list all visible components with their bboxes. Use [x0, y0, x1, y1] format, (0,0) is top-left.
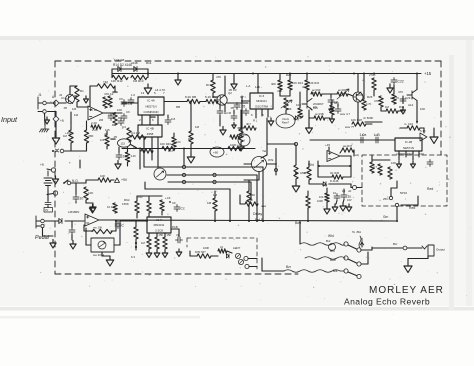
wire lamp b [249, 266, 257, 268]
svg-text:C8: C8 [334, 100, 338, 104]
wire ic5 left vert [241, 96, 243, 134]
wire c20 link [171, 228, 179, 230]
resistor R38 [162, 146, 175, 150]
svg-text:R L: R L [253, 119, 258, 123]
footswitch contact 1b [357, 248, 361, 252]
wire input sleeve drop [44, 113, 47, 125]
svg-text:Analog Echo Reverb: Analog Echo Reverb [344, 297, 430, 307]
wire IC4B pin drop 3 [157, 137, 159, 168]
ground pedal [50, 240, 56, 249]
connector mid out [353, 186, 357, 190]
ground ic7 b [154, 250, 160, 258]
wire r51 bot [148, 213, 150, 217]
svg-text:48: 48 [104, 132, 108, 136]
wire jk bus2 [398, 110, 403, 112]
svg-text:Yel: Yel [262, 149, 266, 153]
wire Q2 collector up [224, 88, 226, 96]
svg-text:1M: 1M [213, 193, 218, 197]
resistor R56 [113, 203, 117, 213]
svg-text:OSC/TRM: OSC/TRM [255, 104, 269, 108]
resistor R2 [75, 86, 79, 102]
svg-text:10b: 10b [319, 195, 324, 199]
wire r18b left [309, 117, 314, 119]
svg-text:L.B: L.B [362, 133, 366, 137]
resistor R8 2.2K [91, 125, 101, 129]
svg-text:PinB: PinB [172, 225, 178, 229]
resistor R17b RM44 [141, 149, 153, 153]
resistor R48 105 [125, 152, 129, 162]
wire R29 drop [373, 90, 375, 96]
dashed enclosure border top [55, 60, 441, 62]
capacitor C6d [231, 114, 237, 121]
wire Q2 base link [213, 96, 217, 98]
svg-text:MN3101: MN3101 [256, 99, 267, 103]
wire 434 stem [433, 128, 435, 133]
wire IC5 pin3 [267, 109, 269, 117]
wire s1 out [71, 182, 86, 184]
resistor R33 [370, 162, 374, 173]
footswitch contact 3b [357, 274, 361, 278]
wire diode feed [112, 68, 148, 70]
svg-text:115: 115 [105, 128, 110, 132]
scan artifact streak bottom [0, 307, 474, 311]
wire bias bus [64, 150, 87, 152]
wire out gnd run [408, 258, 428, 260]
wire r46 gnd [86, 202, 93, 204]
wire p1 lead [47, 169, 51, 170]
svg-text:47K: 47K [374, 99, 379, 103]
junction dot 7 [307, 220, 309, 222]
capacitor C6 [121, 114, 127, 121]
wire IC1B pin c [412, 151, 414, 160]
dashed enclosure border bottom [55, 273, 298, 275]
wire to J5A stem [361, 242, 363, 247]
wire Q5 emitter [310, 108, 312, 110]
svg-text:10: 10 [80, 197, 84, 201]
svg-text:2.2K: 2.2K [91, 121, 97, 125]
capacitor C14b [334, 194, 340, 201]
wire cap22 drop [393, 85, 395, 88]
junction dot 8 [396, 220, 398, 222]
wire wht link [267, 143, 296, 145]
wire Q2 collector to rail [224, 76, 226, 88]
capacitor C13 [427, 160, 433, 167]
footswitch contact 1a [344, 242, 348, 246]
svg-text:NE571N: NE571N [403, 146, 414, 150]
resistor R delay wiper [245, 202, 258, 206]
connector pin d [275, 169, 278, 172]
junction dot 11 [147, 73, 149, 75]
wire Q4 emitter [416, 101, 418, 124]
svg-text:R14: R14 [146, 61, 152, 65]
wire ring to diamond [55, 112, 57, 117]
wire input tip [59, 102, 66, 104]
wire R25 mid [322, 93, 337, 95]
wire IC4A out [164, 101, 187, 103]
svg-text:IC 4B: IC 4B [146, 127, 154, 131]
wire r43 top [214, 191, 216, 198]
wire batt bot [47, 190, 49, 201]
svg-text:68K: 68K [89, 134, 94, 138]
diode D1 1N4148 [118, 66, 121, 71]
connector out a [403, 246, 407, 250]
capacitor C24 10u [116, 153, 122, 160]
wire R15-R16 [200, 101, 206, 103]
resistor R29 270K [372, 78, 376, 90]
wire delay h [244, 179, 259, 181]
wire fb3 drop2 [115, 221, 117, 231]
wire ic7 pin2 [156, 233, 158, 237]
junction ic5 v [241, 100, 243, 102]
wire s1 arm [64, 180, 68, 183]
svg-text:4K7: 4K7 [302, 85, 308, 89]
wire R27 right [366, 123, 372, 125]
svg-text:16.1: 16.1 [107, 205, 113, 209]
capacitor C8b [335, 107, 341, 114]
wire IC4B pin drop 1 [143, 137, 145, 167]
svg-text:Q2: Q2 [228, 91, 232, 95]
wire r64 bot [135, 239, 137, 250]
panel contact P1 [51, 168, 55, 172]
junction rail tap B [252, 73, 254, 75]
resistor R31 500K [386, 109, 398, 113]
IC U4A compander [138, 97, 164, 115]
svg-text:MORLEY AER: MORLEY AER [369, 285, 444, 296]
node diamond lower [53, 116, 59, 122]
svg-text:Bul: Bul [326, 239, 331, 243]
wire r65 top [326, 188, 328, 193]
resistor R43 1M [213, 198, 217, 211]
svg-text:1M: 1M [74, 113, 79, 117]
junction r64 b [135, 246, 137, 248]
svg-text:uF: uF [348, 189, 352, 193]
junction dot 16 [373, 73, 375, 75]
wire R25b to Q3 [348, 94, 353, 96]
wire c31 top [343, 189, 345, 193]
resistor extra RC [244, 126, 256, 130]
svg-text:10: 10 [333, 191, 337, 195]
resistor R35 [388, 167, 392, 179]
wire rail drop 178 [177, 74, 179, 77]
lamp contact b [245, 264, 249, 268]
wire r52 bot [161, 211, 163, 215]
dashed enclosure border left [54, 61, 56, 274]
junction dot 4 [248, 220, 250, 222]
diode D4 [295, 116, 298, 120]
ground ic1b a [397, 161, 402, 168]
svg-text:10K R40: 10K R40 [160, 142, 171, 146]
junction wht [294, 142, 297, 145]
footswitch contact 2a [344, 256, 348, 260]
footswitch lever 2 [348, 259, 357, 263]
resistor R16 5.1K [206, 99, 218, 103]
wire Q3 top [357, 74, 359, 93]
capacitor C21 lfo [115, 222, 121, 229]
svg-text:47K A3: 47K A3 [104, 92, 114, 96]
output jack J3 [422, 245, 434, 256]
capacitor C2 [108, 114, 114, 121]
svg-text:IC 4A: IC 4A [147, 99, 155, 103]
svg-text:12K R12: 12K R12 [111, 79, 123, 83]
svg-text:Rate?: Rate? [282, 121, 290, 125]
wire rb2 top [331, 100, 333, 105]
svg-text:47K: 47K [216, 75, 221, 79]
panel contact P2 [53, 191, 57, 195]
wire up to band1 [79, 160, 81, 168]
ground below R18 [187, 153, 195, 163]
wire R26 top [363, 74, 365, 100]
wire Q2 emitter down [224, 105, 226, 113]
junction dot 6 [262, 220, 264, 222]
diode D2 1N4148 [134, 66, 137, 71]
wire RA top [299, 92, 301, 108]
wire R31 link [381, 110, 386, 112]
wire r17c top [173, 133, 175, 137]
wire r50 top [136, 196, 138, 201]
node diamond at border [53, 100, 59, 106]
resistor R25b [337, 92, 348, 96]
svg-text:.05: .05 [113, 135, 117, 139]
resistor R10 [127, 128, 131, 142]
wire R19 top [212, 74, 214, 81]
wire r51 top [148, 196, 150, 201]
svg-text:1u: 1u [348, 195, 352, 199]
wire IC4A pin drop 3 [157, 115, 159, 125]
wire IC5 rail drop [257, 74, 259, 94]
wire IC4A pin drop 1 [141, 115, 143, 125]
svg-text:J2: J2 [59, 93, 62, 97]
wire R24 top [306, 74, 308, 81]
wire red rise [417, 196, 419, 205]
svg-text:C23: C23 [405, 96, 411, 100]
wire r44 bot [248, 204, 250, 221]
junction rail tap C [353, 73, 355, 75]
wire R20 top [240, 110, 242, 129]
junction dot 2 [214, 220, 216, 222]
wire r66 top [106, 131, 108, 135]
wire loop h2b [343, 176, 351, 178]
svg-text:100K: 100K [203, 246, 209, 250]
ground ic7 c [162, 250, 168, 258]
wire blu rise [299, 221, 301, 244]
wire ic7 pin3 [164, 233, 166, 237]
svg-text:R7R 56?: R7R 56? [195, 250, 206, 254]
capacitor C7b [217, 109, 223, 116]
ground c19 [70, 241, 76, 250]
wire lfo out2 [113, 220, 397, 221]
junction dot 12 [177, 73, 179, 75]
resistor R65 [325, 193, 329, 202]
pot clock rate ellipse [276, 114, 295, 128]
svg-text:+60: +60 [213, 151, 218, 155]
ground batt a [52, 176, 58, 184]
resistor R18 [189, 131, 193, 144]
junction delay feed [275, 163, 277, 165]
svg-text:R5: R5 [118, 116, 122, 120]
wire c6d link [233, 110, 235, 114]
wire opto gnd2 [102, 255, 110, 257]
wire loop left v [317, 161, 319, 177]
resistor R50 150K [135, 201, 139, 213]
resistor R37 fb [342, 148, 354, 152]
svg-text:J1: J1 [38, 93, 42, 97]
svg-text:115: 115 [171, 117, 176, 121]
supply arrow +9V [115, 178, 120, 183]
resistor R30 47K [379, 96, 383, 107]
pot circled trim A [210, 147, 224, 157]
svg-text:N.O.: N.O. [72, 179, 79, 183]
resistor R20 [239, 129, 243, 142]
svg-text:1M: 1M [195, 125, 200, 129]
svg-text:Bwn: Bwn [295, 221, 301, 225]
wire c25 top [167, 115, 169, 118]
svg-text:100K: 100K [317, 199, 323, 203]
resistor R60 wht [294, 165, 298, 179]
svg-text:4148: 4148 [131, 61, 138, 65]
transistor Q4 [407, 90, 417, 101]
resistor R19 [211, 80, 215, 93]
wire bundle v230 [229, 189, 231, 221]
svg-text:3V: 3V [45, 208, 48, 212]
hatched ground input sleeve [40, 125, 50, 132]
ground c31 [340, 203, 346, 211]
wire Q5 e drop [308, 110, 310, 124]
indicator bulb [329, 244, 336, 251]
svg-text:51K: 51K [419, 152, 424, 156]
capacitor C7 [234, 103, 240, 110]
resistor extra RD [392, 94, 396, 104]
svg-text:+1M: +1M [65, 131, 71, 135]
wire c10 drop [423, 128, 425, 133]
svg-text:10K R28: 10K R28 [351, 118, 362, 122]
svg-text:COMPAND: COMPAND [143, 110, 159, 114]
junction rail tap D [416, 73, 418, 75]
resistor extra RB2 [330, 105, 334, 115]
resistor R4 1M feedback [97, 84, 115, 88]
junction dot 9 [183, 148, 185, 150]
switch S1 NO contact [67, 181, 71, 185]
svg-text:+CF: +CF [165, 196, 171, 200]
wire exp gnd link [336, 201, 337, 205]
diode D6 4148 [323, 182, 326, 186]
svg-text:aw R37: aw R37 [343, 144, 353, 148]
wire bus drop left [139, 149, 141, 170]
wire c10 left [400, 127, 407, 129]
ground c23 [401, 107, 406, 114]
ground exp a [332, 204, 338, 212]
resistor extra RA [298, 108, 302, 118]
wire IC5 pin1 [255, 109, 257, 118]
op-amp IC2B mid [327, 151, 340, 162]
svg-text:1M: 1M [103, 81, 108, 85]
capacitor C5 [121, 100, 127, 107]
capacitor C12 1.0 [374, 137, 381, 143]
svg-text:Blu: Blu [330, 249, 335, 253]
wire jk bus [365, 121, 382, 123]
wire d3 out [65, 220, 84, 222]
resistor R3b [108, 96, 112, 107]
svg-text:Cc: Cc [181, 207, 185, 211]
svg-text:6.3: 6.3 [131, 255, 135, 259]
wire c20 drop [178, 229, 180, 237]
svg-text:an1 70: an1 70 [390, 96, 399, 100]
wire c23 [402, 96, 404, 104]
wire trim bus [280, 95, 290, 97]
svg-text:180K: 180K [300, 171, 306, 175]
wire c18 bot [75, 202, 77, 204]
optocoupler box [91, 238, 114, 252]
ground rb2 [330, 116, 335, 123]
svg-text:15K: 15K [167, 233, 172, 237]
wire jack ring link [48, 111, 57, 113]
wire pot delay feed vertical [275, 149, 277, 176]
svg-text:LED?: LED? [233, 246, 241, 250]
ground c6d [232, 123, 236, 129]
resistor R24 10K [305, 80, 309, 90]
op-amp small A2 [420, 133, 427, 141]
wire opto right [114, 244, 120, 246]
resistor R5 10K [113, 113, 117, 125]
resistor R13 1M [131, 75, 147, 79]
pot delay [252, 157, 267, 172]
capacitor C25 [165, 118, 171, 125]
svg-text:R40: R40 [137, 195, 143, 199]
svg-text:Red: Red [427, 187, 433, 191]
IC U1B expander [395, 138, 422, 151]
svg-text:bal: bal [241, 139, 245, 143]
wire q3 to r27 [357, 112, 359, 124]
wire lamp a [248, 258, 257, 260]
wire c7b bot [219, 116, 221, 127]
wire opamp out [103, 112, 122, 114]
svg-text:15K: 15K [159, 233, 164, 237]
svg-text:L.A: L.A [246, 84, 250, 88]
wire red right [401, 204, 418, 206]
svg-text:C6: C6 [126, 110, 130, 114]
wavy lead blu [305, 257, 345, 260]
svg-text:100: 100 [176, 140, 181, 144]
resistor R3 47K [103, 97, 107, 108]
wire feedback left [90, 85, 97, 87]
wire C7 to IC5 [237, 102, 248, 104]
wire band2 bus [122, 148, 255, 150]
resistor R46 10K [84, 187, 88, 200]
wire Q3 emitter [357, 102, 359, 112]
svg-text:115: 115 [121, 142, 126, 146]
ground opto [106, 256, 114, 266]
svg-text:IC-1B: IC-1B [405, 140, 412, 144]
wire R7 bot [86, 143, 88, 151]
lamp contact a [244, 256, 248, 260]
svg-text:C5: C5 [119, 97, 123, 101]
wire loop top [70, 85, 77, 87]
ground wht big [292, 182, 300, 192]
wire fb3 drop [83, 225, 85, 231]
wavy lead wht [300, 243, 344, 246]
capacitor C5b [128, 98, 134, 105]
junction dot 13 [289, 73, 291, 75]
wire r47 in [86, 179, 98, 181]
wire r46 bot [85, 200, 87, 203]
IC U4B sub [138, 125, 162, 137]
junction dot 17 [416, 121, 418, 123]
footswitch lever 1 [348, 245, 357, 249]
scan noise speckles [301, 59, 304, 62]
resistor R61 [307, 167, 311, 180]
IC U5 clock driver [250, 93, 273, 109]
wire bundle h167 [144, 166, 263, 168]
ground exp b [346, 204, 352, 212]
